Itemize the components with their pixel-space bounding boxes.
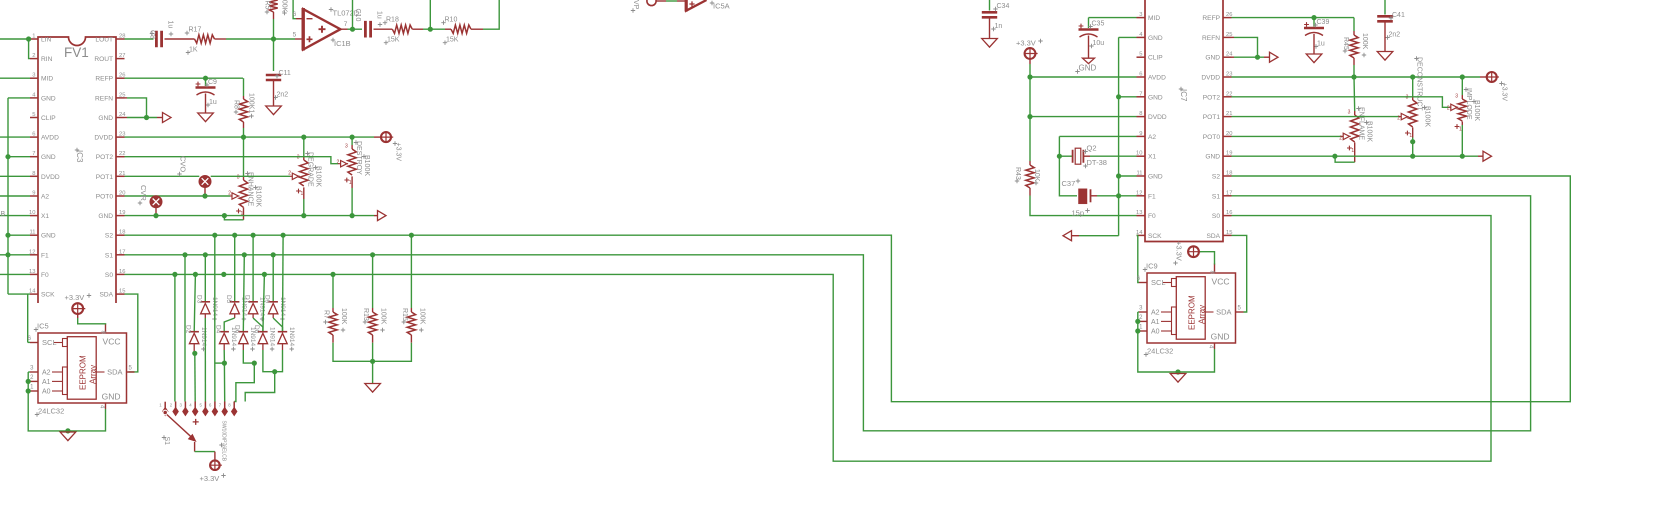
wire C8 to R17 bbox=[165, 38, 195, 40]
svg-text:100K: 100K bbox=[340, 308, 347, 325]
svg-text:GND: GND bbox=[1079, 64, 1097, 73]
wire D7 diagonal to D8 top bbox=[252, 314, 254, 318]
wire IC9 VCC to +3.3V bbox=[1199, 251, 1200, 253]
junction C9 on REFP bbox=[203, 76, 208, 81]
svg-text:EEPROM: EEPROM bbox=[1188, 295, 1197, 330]
svg-text:GND: GND bbox=[98, 213, 113, 220]
junction S1 matrix col d bbox=[271, 252, 276, 257]
svg-text:3: 3 bbox=[1455, 94, 1458, 100]
switch S1 contact 4 bbox=[194, 402, 196, 409]
svg-text:+3.3V: +3.3V bbox=[65, 293, 85, 302]
wire S1 col to diode D3 bbox=[204, 255, 206, 302]
junction IMPLODE bottom on GND row bbox=[1460, 154, 1465, 159]
ic IC3 pin 25 REFN stub bbox=[116, 97, 125, 99]
wire DVDD junction down to IMPLODE bbox=[1461, 77, 1463, 95]
diode D5 1N914 bbox=[230, 301, 240, 303]
junction DECONSTRUCT bottom on GND row bbox=[1410, 154, 1415, 159]
svg-text:D4: D4 bbox=[214, 325, 221, 334]
svg-text:S1: S1 bbox=[105, 252, 113, 259]
supply +3.3V above IC9 bbox=[1188, 246, 1199, 257]
junction IMPLODE top bbox=[1460, 74, 1465, 79]
junction S1 matrix col c bbox=[242, 252, 247, 257]
svg-text:D5: D5 bbox=[225, 295, 232, 304]
svg-text:8: 8 bbox=[1139, 111, 1142, 117]
wire C41 from top edge bbox=[1384, 0, 1386, 15]
svg-text:23: 23 bbox=[1226, 72, 1232, 78]
svg-text:GND: GND bbox=[41, 154, 56, 161]
junction R13 on S1 row bbox=[370, 252, 375, 257]
wire net SDA IC3 to IC5 bbox=[125, 294, 138, 372]
junction S2 matrix col d bbox=[281, 233, 286, 238]
wire branch to D4 column bbox=[215, 362, 225, 364]
svg-text:100K: 100K bbox=[1361, 33, 1368, 50]
capacitor C34 bbox=[982, 12, 997, 17]
wire DECONSTRUCT bottom to GND row bbox=[1412, 138, 1414, 157]
svg-text:DESTROY: DESTROY bbox=[355, 141, 362, 175]
svg-text:5: 5 bbox=[1139, 52, 1142, 58]
resistor R13 100K bbox=[372, 308, 374, 312]
wire REFN jog down to GND24 row bbox=[1232, 36, 1235, 38]
svg-text:IMPLODE: IMPLODE bbox=[1465, 88, 1472, 120]
wire S0 to R7 bbox=[332, 274, 334, 308]
svg-text:Array: Array bbox=[1198, 305, 1207, 324]
wire C10 to R18 bbox=[374, 28, 393, 30]
svg-text:20: 20 bbox=[119, 191, 125, 197]
wire net A2 from left edge bbox=[0, 195, 30, 197]
ic IC7 pin 14 SCK stub bbox=[1137, 234, 1146, 236]
ic IC9 pin GND (4) bottom bbox=[1214, 343, 1216, 349]
ground GND symbol below C35 bbox=[1083, 58, 1095, 63]
capacitor C8 bbox=[156, 31, 161, 47]
svg-text:S0: S0 bbox=[1212, 213, 1220, 220]
svg-text:MID: MID bbox=[41, 76, 53, 83]
junction REFN/GND24 IC7 bbox=[1255, 55, 1260, 60]
svg-text:18: 18 bbox=[119, 230, 125, 236]
svg-text:9: 9 bbox=[32, 191, 35, 197]
svg-text:100K: 100K bbox=[418, 308, 425, 325]
junction crystal node bbox=[1057, 154, 1062, 159]
wire +3.3V to AVDD row bbox=[1029, 59, 1031, 64]
svg-text:SW10DIP76ELCB: SW10DIP76ELCB bbox=[221, 421, 227, 462]
svg-text:C37: C37 bbox=[1062, 179, 1076, 188]
svg-text:1: 1 bbox=[1351, 148, 1354, 154]
svg-text:ENHANCE: ENHANCE bbox=[247, 172, 254, 207]
ic IC9 pin SDA bbox=[1236, 311, 1244, 313]
resistor R10 bbox=[445, 28, 451, 30]
svg-text:100K: 100K bbox=[281, 0, 288, 13]
wire net GND left rail vertical bbox=[7, 98, 9, 294]
junction DECONSTRUCT mid bbox=[1410, 139, 1415, 144]
ic IC5 pin A1 bbox=[30, 380, 38, 382]
svg-text:17: 17 bbox=[1226, 190, 1232, 196]
svg-text:GND: GND bbox=[1211, 332, 1230, 342]
wire DVDD junction down to DESTROY bbox=[351, 137, 353, 145]
svg-text:R8: R8 bbox=[233, 100, 240, 109]
wire SCK down to IC5 SCL bbox=[27, 294, 29, 342]
resistor R5 (cut off at top) bbox=[269, 0, 277, 12]
ic IC9 pin A0 bbox=[1139, 330, 1147, 332]
svg-text:S2: S2 bbox=[1212, 174, 1220, 181]
svg-text:B: B bbox=[1, 211, 6, 218]
svg-text:R5: R5 bbox=[264, 1, 271, 10]
wire R7 bottom to gnd rail bbox=[333, 343, 373, 362]
ic IC3 pin 12 F1 stub bbox=[30, 254, 38, 256]
op-amp IC1B minus sign pin6 bbox=[307, 18, 313, 20]
wire REFP row bbox=[125, 77, 244, 79]
resistor R15 100K bbox=[410, 308, 412, 312]
wire net AVDD from left edge bbox=[0, 136, 30, 138]
ic IC3 pin 27 ROUT stub bbox=[116, 58, 125, 60]
ic IC7 pin 3 MID stub bbox=[1137, 17, 1146, 19]
wire IC5 gnd rail bbox=[68, 409, 106, 431]
svg-text:C35: C35 bbox=[1092, 21, 1105, 28]
wire SDA row to IC9 bbox=[1232, 235, 1247, 312]
junction DECONSTRUCT top bbox=[1410, 74, 1415, 79]
net arrow left IC7 gnd bbox=[1063, 231, 1072, 241]
junction IC5 gnd rail bbox=[65, 428, 70, 433]
wire D5 down to diode D4 top bbox=[234, 314, 236, 318]
svg-text:C11: C11 bbox=[279, 70, 291, 77]
wire C9 to ground bbox=[205, 94, 207, 114]
svg-text:5: 5 bbox=[293, 32, 297, 39]
svg-text:SCK: SCK bbox=[41, 292, 55, 299]
ic IC7 pin 19 GND stub bbox=[1223, 155, 1232, 157]
wire REFP down to R8 bbox=[243, 78, 245, 96]
svg-text:2: 2 bbox=[1447, 106, 1450, 112]
ic IC3 pin 23 DVDD stub bbox=[116, 136, 125, 138]
svg-text:2n2: 2n2 bbox=[277, 92, 289, 99]
wire junction down to C11 bbox=[273, 39, 275, 71]
svg-text:1: 1 bbox=[301, 191, 304, 197]
svg-text:CLIP: CLIP bbox=[1148, 55, 1163, 62]
svg-text:15K: 15K bbox=[446, 37, 459, 44]
capacitor C11 bbox=[266, 75, 281, 80]
svg-text:+3.3V: +3.3V bbox=[1016, 39, 1036, 48]
svg-text:26: 26 bbox=[119, 73, 125, 79]
op-amp IC1B output pin7 bbox=[340, 28, 347, 30]
wire net DVDD from left edge bbox=[0, 175, 30, 177]
junction CVO on POT0 row bbox=[202, 193, 207, 198]
junction GND rail pin11 bbox=[5, 233, 10, 238]
junction GND rail F1 row bbox=[5, 252, 10, 257]
wire net MID from left edge bbox=[0, 77, 30, 79]
svg-text:6: 6 bbox=[1139, 72, 1142, 78]
wire R17 to op-amp junction bbox=[215, 38, 227, 40]
ic IC3 FV1 body bbox=[38, 37, 116, 303]
wire R15 bottom to gnd rail bbox=[373, 343, 412, 362]
wire C11 to ground bbox=[273, 80, 275, 106]
wire ENFLAME bottom hook to GND row bbox=[1335, 156, 1355, 162]
svg-text:F1: F1 bbox=[41, 252, 49, 259]
ic IC7 pin 9 A2 stub bbox=[1137, 135, 1146, 137]
potentiometer ENFLAME B100K bbox=[1354, 111, 1356, 115]
supply +3.3V below switch bbox=[210, 460, 220, 470]
wire GND pin11 row bbox=[1119, 175, 1137, 177]
wire VP to op-amp IC5A bbox=[656, 0, 666, 2]
wire DESTROY bottom to GND row bbox=[351, 188, 353, 216]
ic IC3 pin 18 S2 stub bbox=[116, 234, 125, 236]
svg-text:15K: 15K bbox=[387, 37, 400, 44]
svg-text:DT-38: DT-38 bbox=[1087, 158, 1107, 167]
svg-text:X1: X1 bbox=[41, 213, 49, 220]
svg-text:7: 7 bbox=[1139, 91, 1142, 97]
junction S2 matrix col c bbox=[251, 233, 256, 238]
wire DVDD row to +3.3V bbox=[1232, 76, 1481, 78]
svg-text:S2: S2 bbox=[105, 233, 113, 240]
wire DVDD row to +3.3V bbox=[125, 136, 375, 138]
svg-text:R45: R45 bbox=[1342, 37, 1349, 50]
wire op-amp output up to top edge bbox=[352, 0, 354, 29]
wire IC5 SCL to IC3 SCK vertical bbox=[28, 341, 30, 343]
svg-text:VP: VP bbox=[632, 0, 639, 10]
svg-text:13: 13 bbox=[29, 269, 35, 275]
svg-text:3: 3 bbox=[345, 144, 348, 150]
switch S1 wiper arm bbox=[167, 415, 192, 438]
svg-text:CLIP: CLIP bbox=[41, 115, 56, 122]
svg-text:15: 15 bbox=[1226, 230, 1232, 236]
svg-text:28: 28 bbox=[119, 34, 125, 40]
svg-text:POT0: POT0 bbox=[96, 194, 114, 201]
svg-text:F0: F0 bbox=[1148, 213, 1156, 220]
junction gnd vertical pin7 bbox=[1116, 94, 1121, 99]
svg-text:17: 17 bbox=[119, 249, 125, 255]
svg-text:2: 2 bbox=[337, 160, 340, 166]
svg-text:A2: A2 bbox=[42, 370, 51, 377]
wire GND pin4 row bbox=[8, 97, 30, 99]
op-amp IC5A partial triangle bbox=[686, 0, 706, 11]
svg-text:AVDD: AVDD bbox=[1148, 75, 1166, 82]
diode D7 1N914 bbox=[248, 301, 258, 303]
svg-text:D3: D3 bbox=[196, 295, 203, 304]
svg-text:10: 10 bbox=[1136, 151, 1142, 157]
capacitor C39 (polarized) bbox=[1313, 18, 1315, 27]
svg-text:Array: Array bbox=[89, 365, 98, 384]
wire S0 col to diode D8 bbox=[263, 274, 265, 331]
junction below D2 bbox=[192, 351, 197, 356]
svg-text:+3.3V: +3.3V bbox=[1175, 241, 1184, 261]
wire C37 to F1 junction bbox=[1091, 195, 1098, 197]
ic IC7 pin 22 POT2 stub bbox=[1223, 96, 1232, 98]
ic IC3 pin 19 GND stub bbox=[116, 215, 125, 217]
junction op-amp output node bbox=[348, 28, 363, 30]
ic IC7 pin 23 DVDD stub bbox=[1223, 76, 1232, 78]
svg-text:DVDD: DVDD bbox=[1148, 114, 1167, 121]
junction C39 on REFP bbox=[1311, 15, 1316, 20]
svg-text:GND: GND bbox=[1148, 94, 1163, 101]
wire IC9 A2 A1 A0 tie bbox=[1138, 311, 1139, 313]
wire REFP corner down to R45 bbox=[1353, 18, 1355, 31]
wire LOUT to C8 bbox=[125, 38, 154, 40]
svg-text:+3.3V: +3.3V bbox=[200, 474, 220, 483]
ic IC5 pin A0 bbox=[30, 390, 38, 392]
ic IC3 pin 11 GND stub bbox=[30, 234, 38, 236]
svg-text:1: 1 bbox=[1409, 133, 1412, 139]
ic IC7 pin 15 SDA stub bbox=[1223, 234, 1232, 236]
svg-text:POT2: POT2 bbox=[1203, 94, 1221, 101]
ground below pull-up rail bbox=[365, 384, 381, 393]
diode D10 1N914 bbox=[278, 331, 287, 333]
svg-text:12: 12 bbox=[29, 249, 35, 255]
svg-text:21: 21 bbox=[119, 171, 125, 177]
svg-text:12: 12 bbox=[1136, 190, 1142, 196]
ground below IC5 bbox=[60, 432, 76, 441]
ic IC7 pin 21 POT1 stub bbox=[1223, 116, 1232, 118]
svg-text:RIN: RIN bbox=[41, 56, 53, 63]
junction S2 matrix col b bbox=[232, 233, 237, 238]
svg-text:25: 25 bbox=[1226, 32, 1232, 38]
op-amp IC1B plus sign center bbox=[319, 26, 326, 33]
wire S2 col to diode D10 bbox=[282, 235, 285, 332]
junction S0 matrix col c bbox=[221, 272, 226, 277]
capacitor C35 (polarized) bbox=[1088, 18, 1090, 28]
potentiometer DECONSTRUCT B100K bbox=[1412, 96, 1414, 100]
svg-text:GND: GND bbox=[1148, 174, 1163, 181]
wire GND pin11 row bbox=[8, 234, 30, 236]
supply VP circle (cut at top) bbox=[647, 0, 656, 6]
svg-text:15p: 15p bbox=[1072, 209, 1085, 218]
svg-text:IC1B: IC1B bbox=[334, 39, 351, 48]
wire C34 from top edge bbox=[989, 0, 991, 11]
op-amp IC1B triangle bbox=[303, 9, 340, 49]
ic IC9 inner EEPROM array box bbox=[1176, 277, 1205, 340]
svg-text:24LC32: 24LC32 bbox=[38, 407, 64, 416]
svg-text:1K: 1K bbox=[189, 47, 198, 54]
wire net S0 bus IC3 to IC7 bbox=[125, 216, 1492, 462]
svg-text:DVDD: DVDD bbox=[41, 174, 60, 181]
ic IC3 pin 13 F0 stub bbox=[30, 273, 38, 275]
wire POT1 row to DEGRADE wiper bbox=[125, 175, 200, 177]
potentiometer DEGRADE B100K bbox=[303, 156, 305, 160]
wire S1 to R13 bbox=[372, 255, 374, 308]
junction S1 matrix col b bbox=[203, 252, 208, 257]
supply +3.3V above IC5 bbox=[72, 303, 83, 314]
svg-text:A1: A1 bbox=[42, 379, 51, 386]
wire DVDD junction down to ENFLAME bbox=[1353, 77, 1356, 111]
ic IC3 pin 1 LIN stub bbox=[30, 38, 38, 40]
svg-text:DVDD: DVDD bbox=[94, 135, 113, 142]
switch S1 contact 7 bbox=[224, 402, 226, 409]
svg-text:R15: R15 bbox=[401, 308, 408, 321]
potentiometer DESTROY B100K bbox=[351, 145, 353, 149]
svg-text:1N914: 1N914 bbox=[288, 327, 295, 347]
svg-text:EEPROM: EEPROM bbox=[79, 355, 88, 390]
svg-text:C34: C34 bbox=[997, 3, 1010, 10]
svg-text:D2: D2 bbox=[185, 325, 192, 334]
ic IC3 pin 2 RIN stub bbox=[30, 58, 38, 60]
svg-text:11: 11 bbox=[1136, 171, 1142, 177]
svg-text:A0: A0 bbox=[1151, 329, 1160, 336]
svg-text:1: 1 bbox=[32, 34, 35, 40]
ic IC7 pin 11 GND stub bbox=[1137, 175, 1146, 177]
ic IC3 pin 10 X1 stub bbox=[30, 215, 38, 217]
wire net S2 bus IC3 to IC7 bbox=[125, 176, 1571, 402]
wire R43 bottom to F0 row bbox=[1030, 196, 1137, 216]
crystal Q2 DT-38 bbox=[1059, 155, 1072, 157]
svg-text:R13: R13 bbox=[362, 308, 369, 321]
svg-text:IC9: IC9 bbox=[1146, 262, 1158, 271]
svg-text:100K: 100K bbox=[380, 308, 387, 325]
junction IC5 A1 bbox=[26, 379, 31, 384]
ic IC9 pin A1 bbox=[1139, 320, 1147, 322]
junction ENFLAME hook on GND row bbox=[1332, 154, 1337, 159]
ic IC3 pin 4 GND stub bbox=[30, 97, 38, 99]
ic IC3 pin 7 GND stub bbox=[30, 156, 38, 158]
wire net F1 from left edge bbox=[0, 254, 30, 256]
ic IC3 pin 5 CLIP stub bbox=[30, 117, 38, 119]
svg-text:3: 3 bbox=[1348, 110, 1351, 116]
ic IC7 pin 24 GND stub bbox=[1223, 56, 1232, 58]
wire C34 to ground bbox=[989, 17, 991, 38]
ic IC7 pin 4 GND stub bbox=[1137, 36, 1146, 38]
wire S1 col to switch contact 3 bbox=[184, 255, 186, 402]
ic IC5 pin SCL bbox=[30, 342, 38, 344]
svg-text:2: 2 bbox=[32, 53, 35, 59]
svg-text:3: 3 bbox=[1139, 12, 1142, 18]
wire A2 row to crystal bbox=[1059, 135, 1136, 137]
svg-text:IC5: IC5 bbox=[37, 322, 49, 331]
wire S2 col to diode D5 bbox=[234, 235, 236, 302]
wire wiper to +3.3V supply bbox=[194, 442, 196, 452]
svg-text:A2: A2 bbox=[41, 194, 49, 201]
wire SCK row down to IC9 SCL bbox=[1137, 235, 1140, 282]
svg-text:C41: C41 bbox=[1392, 12, 1405, 19]
junction REFN/GND24 bbox=[144, 115, 149, 120]
svg-text:AVDD: AVDD bbox=[41, 135, 59, 142]
svg-text:DVDD: DVDD bbox=[1201, 75, 1220, 82]
svg-text:F1: F1 bbox=[1148, 193, 1156, 200]
capacitor C10 bbox=[365, 21, 370, 38]
resistor R43 10K bbox=[1029, 161, 1031, 165]
ic IC7 pin 18 S2 stub bbox=[1223, 175, 1232, 177]
svg-text:7: 7 bbox=[32, 151, 35, 157]
wire GND pin19 row bbox=[125, 215, 375, 217]
junction F1/C37 on gnd vertical bbox=[1116, 193, 1121, 198]
wire S2 to R15 bbox=[410, 235, 412, 308]
potentiometer IMPLODE B100K bbox=[1461, 95, 1463, 99]
wire R10 right and up to top edge bbox=[471, 28, 483, 30]
switch S1 contact 2 bbox=[175, 402, 177, 409]
wire POT1 row to DECONSTRUCT wiper bbox=[1232, 116, 1399, 118]
ic IC9 24LC32 outer box bbox=[1147, 273, 1236, 343]
svg-text:X1: X1 bbox=[1148, 154, 1156, 161]
supply +3.3V right of DVDD row bbox=[381, 132, 391, 142]
junction S2 matrix col a bbox=[212, 233, 217, 238]
ic IC7 pin 20 POT0 stub bbox=[1223, 135, 1232, 137]
svg-text:10K: 10K bbox=[1033, 169, 1040, 182]
resistor R17 bbox=[195, 35, 215, 43]
switch S1 contact 1 bbox=[164, 402, 166, 408]
svg-text:GND: GND bbox=[1205, 55, 1220, 62]
svg-text:14: 14 bbox=[29, 289, 36, 295]
svg-text:Q2: Q2 bbox=[1087, 144, 1097, 153]
svg-text:1N914: 1N914 bbox=[269, 327, 276, 347]
svg-text:1: 1 bbox=[1459, 127, 1462, 133]
junction S0 matrix col d bbox=[262, 272, 267, 277]
svg-text:R17: R17 bbox=[189, 27, 202, 34]
ic IC9 pin A2 bbox=[1139, 311, 1147, 313]
wire S1 col to diode D9 bbox=[272, 255, 274, 302]
svg-text:ROUT: ROUT bbox=[94, 56, 113, 63]
svg-text:GND: GND bbox=[98, 115, 113, 122]
net arrow right of IC7 GND24 bbox=[1270, 52, 1279, 62]
wire GND pin19 row to arrow bbox=[1232, 155, 1479, 157]
junction R15 on S2 row bbox=[409, 233, 414, 238]
svg-text:A1: A1 bbox=[1151, 319, 1160, 326]
junction GND rail pin7 bbox=[5, 154, 10, 159]
ic IC5 pin SDA bbox=[127, 371, 135, 373]
ic IC7 pin 13 F0 stub bbox=[1137, 215, 1146, 217]
junction stair b bbox=[252, 361, 257, 366]
